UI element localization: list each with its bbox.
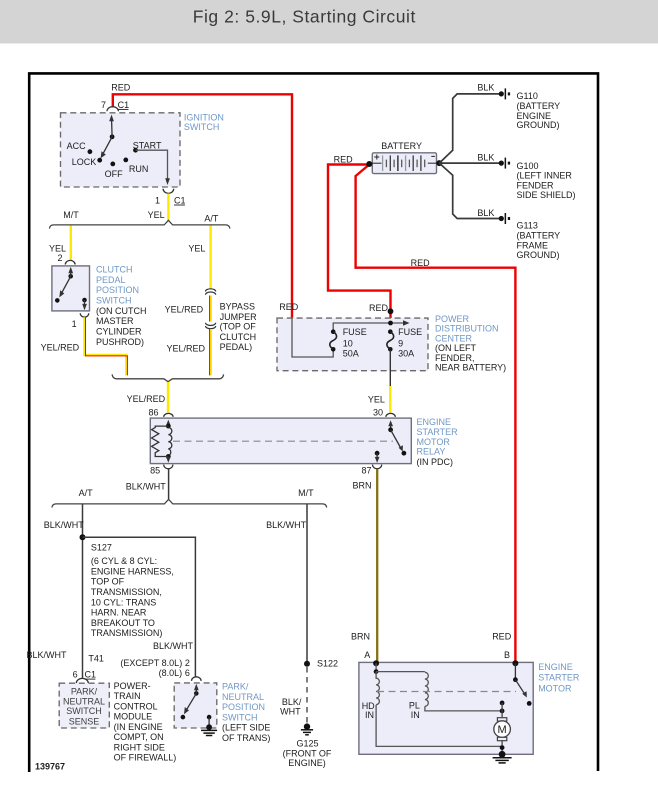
starter dashed link (377, 691, 516, 693)
svg-text:FENDER: FENDER (517, 180, 555, 190)
clutch pedal position switch (52, 265, 147, 347)
ground park/neutral position switch (201, 724, 217, 735)
svg-text:PEDAL: PEDAL (96, 275, 126, 285)
svg-text:6: 6 (185, 668, 190, 678)
svg-text:GROUND): GROUND) (517, 250, 560, 260)
svg-text:(TOP OF: (TOP OF (220, 322, 257, 332)
svg-text:M: M (498, 724, 507, 736)
pin 1 C1 connector (155, 189, 186, 206)
pin 2 connector (57, 253, 75, 264)
wire BLK/WHT A/T branch to PCM (44, 504, 85, 678)
svg-text:(BATTERY: (BATTERY (517, 231, 561, 241)
svg-text:ENGINE: ENGINE (538, 662, 573, 672)
ground G110 (499, 88, 560, 130)
svg-text:(LEFT SIDE: (LEFT SIDE (222, 723, 270, 733)
svg-text:(6 CYL & 8 CYL:: (6 CYL & 8 CYL: (91, 556, 157, 566)
powertrain control module label (114, 681, 177, 763)
svg-text:86: 86 (148, 407, 158, 417)
ignition switch blade to LOCK (101, 137, 113, 158)
svg-text:FENDER,: FENDER, (435, 353, 475, 363)
wire YEL/RED to merge brace (166, 329, 210, 375)
svg-text:RED: RED (279, 302, 299, 312)
node junction red entry (388, 308, 394, 314)
wire RED ignition to PDC (111, 83, 292, 319)
svg-text:OF TRANS): OF TRANS) (222, 733, 270, 743)
svg-text:GROUND): GROUND) (517, 120, 560, 130)
svg-text:9: 9 (398, 339, 403, 349)
svg-text:BLK/WHT: BLK/WHT (26, 650, 67, 660)
svg-text:2: 2 (57, 253, 62, 263)
svg-text:85: 85 (150, 466, 160, 476)
ground G125 (283, 723, 332, 768)
svg-text:SENSE: SENSE (69, 716, 100, 726)
wire BLK to G110 (439, 83, 499, 163)
wire BLK/WHT left to PCM pin 6 (26, 650, 103, 683)
svg-text:MODULE: MODULE (114, 712, 153, 722)
svg-text:NEUTRAL: NEUTRAL (222, 692, 264, 702)
svg-text:CLUTCH: CLUTCH (220, 332, 257, 342)
svg-text:G125: G125 (296, 739, 318, 749)
ground starter motor (493, 751, 512, 763)
svg-text:OFF: OFF (105, 169, 123, 179)
svg-text:BLK/WHT: BLK/WHT (44, 520, 85, 530)
wire YEL M/T branch (49, 226, 71, 261)
svg-text:1: 1 (72, 319, 77, 329)
svg-text:7: 7 (101, 100, 106, 110)
battery (366, 141, 442, 173)
svg-text:A/T: A/T (204, 213, 219, 223)
ignition switch (61, 112, 224, 187)
svg-text:TRANSMISSION,: TRANSMISSION, (91, 587, 162, 597)
svg-text:10: 10 (343, 339, 353, 349)
wire BLK/WHT S127 to park/neutral position switch (83, 537, 196, 678)
svg-text:PL: PL (409, 701, 420, 711)
svg-text:RUN: RUN (129, 164, 149, 174)
svg-text:TOP OF: TOP OF (91, 577, 125, 587)
wire internal PDC from left entry to fuse 10 (292, 318, 333, 357)
svg-text:30: 30 (373, 407, 383, 417)
svg-text:S122: S122 (317, 659, 338, 669)
pin 86 connector (148, 407, 173, 417)
svg-text:CONTROL: CONTROL (114, 701, 158, 711)
svg-text:DISTRIBUTION: DISTRIBUTION (435, 324, 499, 334)
relay coil (166, 420, 172, 463)
svg-text:RED: RED (111, 83, 131, 93)
svg-text:BREAKOUT TO: BREAKOUT TO (91, 618, 155, 628)
svg-text:87: 87 (361, 466, 371, 476)
svg-text:S127: S127 (91, 542, 112, 552)
svg-text:LOCK: LOCK (72, 157, 97, 167)
svg-text:M/T: M/T (63, 210, 79, 220)
svg-text:(IN ENGINE: (IN ENGINE (114, 722, 163, 732)
wire YEL/RED bypass jumper (165, 296, 257, 353)
wire BLK to G113 (439, 163, 499, 218)
svg-text:TRAIN: TRAIN (114, 691, 141, 701)
ground G100 (499, 158, 576, 201)
svg-text:ENGINE HARNESS,: ENGINE HARNESS, (91, 566, 174, 576)
svg-text:FRAME: FRAME (517, 240, 549, 250)
svg-text:10 CYL: TRANS: 10 CYL: TRANS (91, 597, 156, 607)
svg-text:SWITCH: SWITCH (66, 706, 102, 716)
svg-text:2: 2 (185, 658, 190, 668)
svg-text:CYLINDER: CYLINDER (96, 327, 142, 337)
relay resistor (152, 426, 169, 456)
svg-text:NEAR BATTERY): NEAR BATTERY) (435, 363, 506, 373)
svg-text:RELAY: RELAY (417, 447, 446, 457)
engine starter motor box (359, 662, 580, 754)
fuse 9 (387, 327, 422, 359)
svg-text:(IN PDC): (IN PDC) (417, 457, 454, 467)
svg-text:IN: IN (365, 710, 374, 720)
svg-text:RED: RED (492, 632, 512, 642)
svg-text:YEL/RED: YEL/RED (41, 343, 80, 353)
svg-text:YEL: YEL (368, 395, 385, 405)
clutch switch contacts and arm (55, 267, 87, 311)
svg-text:C1: C1 (174, 196, 186, 206)
park/neutral position switch contacts (181, 684, 212, 725)
wire BRN relay 87 to starter A (351, 469, 377, 663)
svg-text:BATTERY: BATTERY (381, 141, 422, 151)
ignition switch arm arrow to pin 7 (109, 115, 114, 137)
svg-text:RED: RED (334, 155, 354, 165)
wire BLK/WHT M/T branch to S122 (266, 504, 307, 664)
wire BLK to G100 (439, 153, 499, 164)
svg-text:POWER: POWER (435, 314, 470, 324)
wire RED battery to PDC (328, 165, 391, 324)
svg-text:BLK: BLK (477, 153, 494, 163)
powertrain control module box (59, 683, 109, 728)
svg-text:BLK/WHT: BLK/WHT (153, 641, 194, 651)
wire PL coil to motor (425, 706, 502, 711)
diagram frame (29, 73, 598, 772)
fuse 10 (330, 327, 367, 359)
wire YEL/RED clutch to merge brace (41, 317, 128, 375)
svg-text:START: START (133, 140, 162, 150)
svg-text:ENGINE): ENGINE) (288, 758, 326, 768)
wire internal PDC fuse 10 top to arrow (333, 320, 409, 332)
inline connector top pair (206, 289, 216, 295)
wire fuse 9 to relay pin 30 (368, 349, 390, 413)
svg-text:COMPT, ON: COMPT, ON (114, 732, 164, 742)
svg-text:(8.0L): (8.0L) (159, 668, 183, 678)
svg-text:SWITCH: SWITCH (96, 296, 132, 306)
relay switch (375, 420, 407, 463)
svg-text:CENTER: CENTER (435, 334, 473, 344)
engine starter motor relay box (150, 417, 458, 467)
svg-text:1: 1 (155, 196, 160, 206)
header bar (0, 0, 658, 44)
svg-text:YEL: YEL (148, 210, 165, 220)
wire YEL A/T branch (188, 226, 210, 289)
svg-text:BLK: BLK (477, 208, 494, 218)
svg-text:BLK/: BLK/ (282, 697, 302, 707)
svg-text:(FRONT OF: (FRONT OF (283, 748, 332, 758)
svg-text:G110: G110 (517, 91, 538, 101)
svg-text:YEL/RED: YEL/RED (166, 344, 205, 354)
svg-text:IN: IN (411, 710, 420, 720)
svg-text:POWER-: POWER- (114, 681, 151, 691)
svg-text:(ON CUTCH: (ON CUTCH (96, 306, 147, 316)
wire BLK/WHT dashed to G125 (280, 667, 307, 724)
relay dashed link (173, 440, 393, 442)
starter internal wiring top (374, 663, 425, 674)
svg-text:G113: G113 (517, 221, 538, 231)
wire HD coil to ground bus (376, 705, 502, 747)
svg-text:A: A (364, 650, 370, 660)
pin 30 connector (373, 407, 395, 417)
svg-text:6: 6 (73, 670, 78, 680)
park/neutral position switch box (174, 682, 270, 744)
wire YEL/RED merged to relay 86 (127, 382, 169, 413)
ground G113 (499, 213, 560, 260)
starter pin A node (373, 660, 379, 666)
svg-text:JUMPER: JUMPER (220, 312, 258, 322)
svg-text:BRN: BRN (352, 480, 371, 490)
inline connector bottom pair (206, 323, 216, 329)
svg-text:POSITION: POSITION (222, 702, 265, 712)
svg-text:(BATTERY: (BATTERY (517, 101, 561, 111)
brace merge (112, 374, 224, 381)
pin 85 connector (150, 465, 173, 476)
svg-text:BLK/WHT: BLK/WHT (266, 520, 307, 530)
brace split M/T A/T (49, 210, 230, 229)
svg-text:YEL: YEL (49, 244, 66, 254)
wire START to pin 1 (136, 150, 170, 185)
svg-text:STARTER: STARTER (538, 673, 580, 683)
svg-text:A/T: A/T (79, 488, 94, 498)
svg-text:30A: 30A (398, 349, 414, 359)
svg-text:PARK/: PARK/ (71, 687, 98, 697)
starter solenoid switch (513, 663, 532, 706)
brace split A/T M/T lower (52, 488, 327, 508)
pin 1 connector clutch (72, 313, 89, 329)
svg-text:SWITCH: SWITCH (222, 712, 258, 722)
svg-text:ACC: ACC (67, 141, 87, 151)
node S127 (80, 534, 174, 638)
wire BLK/WHT relay 85 to split brace (126, 469, 169, 500)
svg-text:50A: 50A (343, 349, 359, 359)
svg-text:ENGINE: ENGINE (417, 417, 452, 427)
starter PL coil (409, 672, 428, 720)
svg-text:MASTER: MASTER (96, 316, 134, 326)
svg-text:T41: T41 (88, 654, 104, 664)
svg-text:Fig 2: 5.9L, Starting Circuit: Fig 2: 5.9L, Starting Circuit (193, 6, 416, 26)
svg-text:SWITCH: SWITCH (184, 122, 220, 132)
svg-text:NEUTRAL: NEUTRAL (63, 696, 105, 706)
svg-text:BRN: BRN (351, 632, 370, 642)
svg-text:BYPASS: BYPASS (220, 302, 255, 312)
svg-text:139767: 139767 (35, 761, 65, 771)
svg-text:C1: C1 (118, 100, 130, 110)
pin 7 C1 connector (101, 100, 129, 111)
svg-text:HARN. NEAR: HARN. NEAR (91, 608, 147, 618)
svg-text:RED: RED (411, 258, 431, 268)
svg-text:FUSE: FUSE (398, 327, 422, 337)
svg-text:YEL/RED: YEL/RED (127, 394, 166, 404)
svg-text:BLK/WHT: BLK/WHT (126, 482, 167, 492)
svg-text:WHT: WHT (280, 707, 301, 717)
svg-text:FUSE: FUSE (343, 327, 367, 337)
svg-text:M/T: M/T (298, 488, 314, 498)
svg-text:RIGHT SIDE: RIGHT SIDE (114, 742, 165, 752)
motor M1 (494, 701, 511, 755)
svg-text:MOTOR: MOTOR (538, 683, 572, 693)
starter pin B node (512, 660, 518, 666)
pin 87 connector (361, 465, 381, 476)
starter HD coil (362, 672, 380, 721)
svg-text:CLUTCH: CLUTCH (96, 265, 133, 275)
svg-text:(LEFT INNER: (LEFT INNER (517, 171, 573, 181)
svg-text:PARK/: PARK/ (222, 682, 249, 692)
wire RED battery to starter B (356, 165, 516, 663)
svg-text:TRANSMISSION): TRANSMISSION) (91, 628, 163, 638)
svg-text:SIDE SHIELD): SIDE SHIELD) (517, 190, 576, 200)
svg-text:BLK: BLK (477, 83, 494, 93)
svg-text:(ON LEFT: (ON LEFT (435, 343, 477, 353)
svg-text:MOTOR: MOTOR (417, 437, 451, 447)
RED label at starter B (492, 632, 512, 661)
svg-text:G100: G100 (517, 161, 539, 171)
svg-text:PUSHROD): PUSHROD) (96, 337, 144, 347)
pin connector park/neutral position switch (191, 677, 201, 681)
svg-text:STARTER: STARTER (417, 427, 459, 437)
wire YEL ignition to split brace (148, 194, 169, 222)
svg-text:RED: RED (369, 303, 389, 313)
svg-text:PEDAL): PEDAL) (220, 342, 253, 352)
svg-text:C1: C1 (85, 670, 97, 680)
svg-text:B: B (504, 650, 510, 660)
svg-text:YEL: YEL (188, 244, 205, 254)
power distribution center box (277, 314, 506, 373)
svg-text:YEL/RED: YEL/RED (165, 305, 204, 315)
svg-text:(EXCEPT 8.0L): (EXCEPT 8.0L) (120, 658, 182, 668)
node S122 (304, 659, 338, 669)
svg-text:POSITION: POSITION (96, 285, 139, 295)
svg-text:OF FIREWALL): OF FIREWALL) (114, 753, 177, 763)
ignition switch contacts (67, 134, 162, 179)
